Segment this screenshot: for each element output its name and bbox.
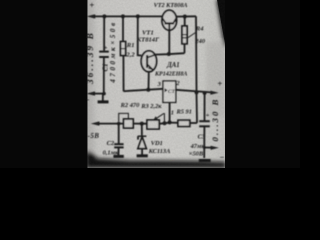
junction VT2 base node bbox=[167, 52, 171, 56]
label C1 plus bbox=[104, 44, 108, 51]
label 2,2 bbox=[125, 52, 135, 59]
transistor VT2 bbox=[162, 10, 177, 54]
label R2 470 bbox=[120, 102, 140, 109]
resistor R3 (pot) bbox=[147, 114, 170, 129]
junction VT1 collector / pin3 wire bbox=[146, 88, 150, 92]
capacitor C3 bbox=[199, 93, 210, 158]
resistor R2 bbox=[124, 119, 147, 128]
right black bar bbox=[225, 40, 300, 168]
IC DA1 box bbox=[163, 81, 176, 102]
label + (input plus) bbox=[89, 0, 94, 10]
wire long vertical right bbox=[196, 16, 197, 123]
minus input arrow bbox=[86, 91, 104, 95]
ground (input common) bbox=[98, 94, 109, 102]
label R5 91 bbox=[175, 109, 191, 116]
bottom shadow band bbox=[86, 158, 226, 168]
pin 3 label bbox=[157, 81, 162, 88]
junction C1/minus bbox=[102, 92, 106, 96]
junction C2/rail bbox=[117, 122, 121, 126]
label R4 bbox=[195, 26, 204, 33]
label KS113A bbox=[148, 148, 171, 155]
resistor R4 bbox=[182, 17, 187, 54]
wire DA1 pin2 to output bbox=[176, 90, 219, 95]
wire top bus bbox=[94, 15, 163, 17]
ground (C3) bbox=[199, 159, 211, 162]
label 4700mk x 50v bbox=[109, 20, 117, 83]
left black bar bbox=[0, 0, 87, 168]
capacitor C2 bbox=[114, 124, 123, 156]
label C2 bbox=[107, 140, 115, 147]
wire VT2 base node to VT1 emitter bbox=[155, 53, 185, 54]
junction VT1/bus bbox=[136, 14, 140, 18]
label 0...30 V bbox=[210, 98, 220, 142]
label KT814G bbox=[136, 37, 160, 44]
label C3 bbox=[198, 133, 206, 140]
junction pin1/rail bbox=[168, 120, 172, 124]
leader line R4 bbox=[187, 33, 196, 39]
-5V arrow (lower left) bbox=[91, 121, 124, 125]
paper bbox=[88, 0, 226, 168]
pin 1 label bbox=[171, 110, 174, 117]
label VT1 bbox=[142, 30, 154, 37]
label 47mk bbox=[190, 143, 206, 150]
node + input terminal (top-left arrow) bbox=[87, 14, 163, 18]
capacitor C1 bbox=[99, 16, 109, 93]
junction output/C3 bbox=[203, 91, 207, 95]
label 240 bbox=[194, 38, 206, 45]
resistor R1 bbox=[121, 16, 126, 91]
junction output/long vertical bbox=[195, 90, 199, 94]
label DA1 bbox=[166, 62, 180, 69]
ground (C2) bbox=[113, 155, 123, 158]
zener VD1 bbox=[138, 124, 147, 155]
label x50V bbox=[189, 151, 204, 158]
junction R1/bus bbox=[121, 14, 125, 18]
label -5V bbox=[88, 132, 100, 140]
label R3 2,2k bbox=[140, 103, 162, 110]
label KR142EN8A bbox=[154, 71, 187, 77]
transistor VT1 bbox=[141, 51, 156, 90]
minus output arrow bbox=[203, 146, 219, 150]
wire bus to VT1 bbox=[138, 16, 142, 55]
junction R3 wiper/rail bbox=[163, 121, 167, 125]
label C3 plus bbox=[206, 112, 210, 119]
wire C2 jog over R2 bbox=[119, 113, 129, 121]
label minus (input) bbox=[85, 96, 90, 105]
label 36...39 V bbox=[85, 31, 95, 85]
ground (VD1) bbox=[137, 154, 148, 157]
label R1 bbox=[126, 42, 135, 49]
wire R1 bottom to DA1 pin3 bbox=[124, 89, 163, 91]
label VD1 bbox=[151, 140, 163, 147]
junction VD1/rail bbox=[140, 122, 144, 126]
label + (output plus) bbox=[217, 79, 222, 89]
photo black background bbox=[0, 0, 300, 168]
label minus (output) bbox=[220, 153, 225, 162]
pin 2 label bbox=[175, 80, 180, 87]
label C1 bbox=[102, 63, 110, 71]
wire DA1 pin1 down bbox=[169, 102, 171, 122]
wire VT2 emitter to corner bbox=[176, 15, 196, 17]
label VT2 KT808A bbox=[154, 2, 188, 9]
top-right dark wedge bbox=[217, 0, 229, 47]
junction R4 top bbox=[183, 15, 187, 19]
label 0,1mk bbox=[103, 150, 119, 157]
paper grain bbox=[0, 0, 1, 1]
junction C1/bus bbox=[102, 14, 106, 18]
resistor R5 bbox=[170, 120, 197, 126]
